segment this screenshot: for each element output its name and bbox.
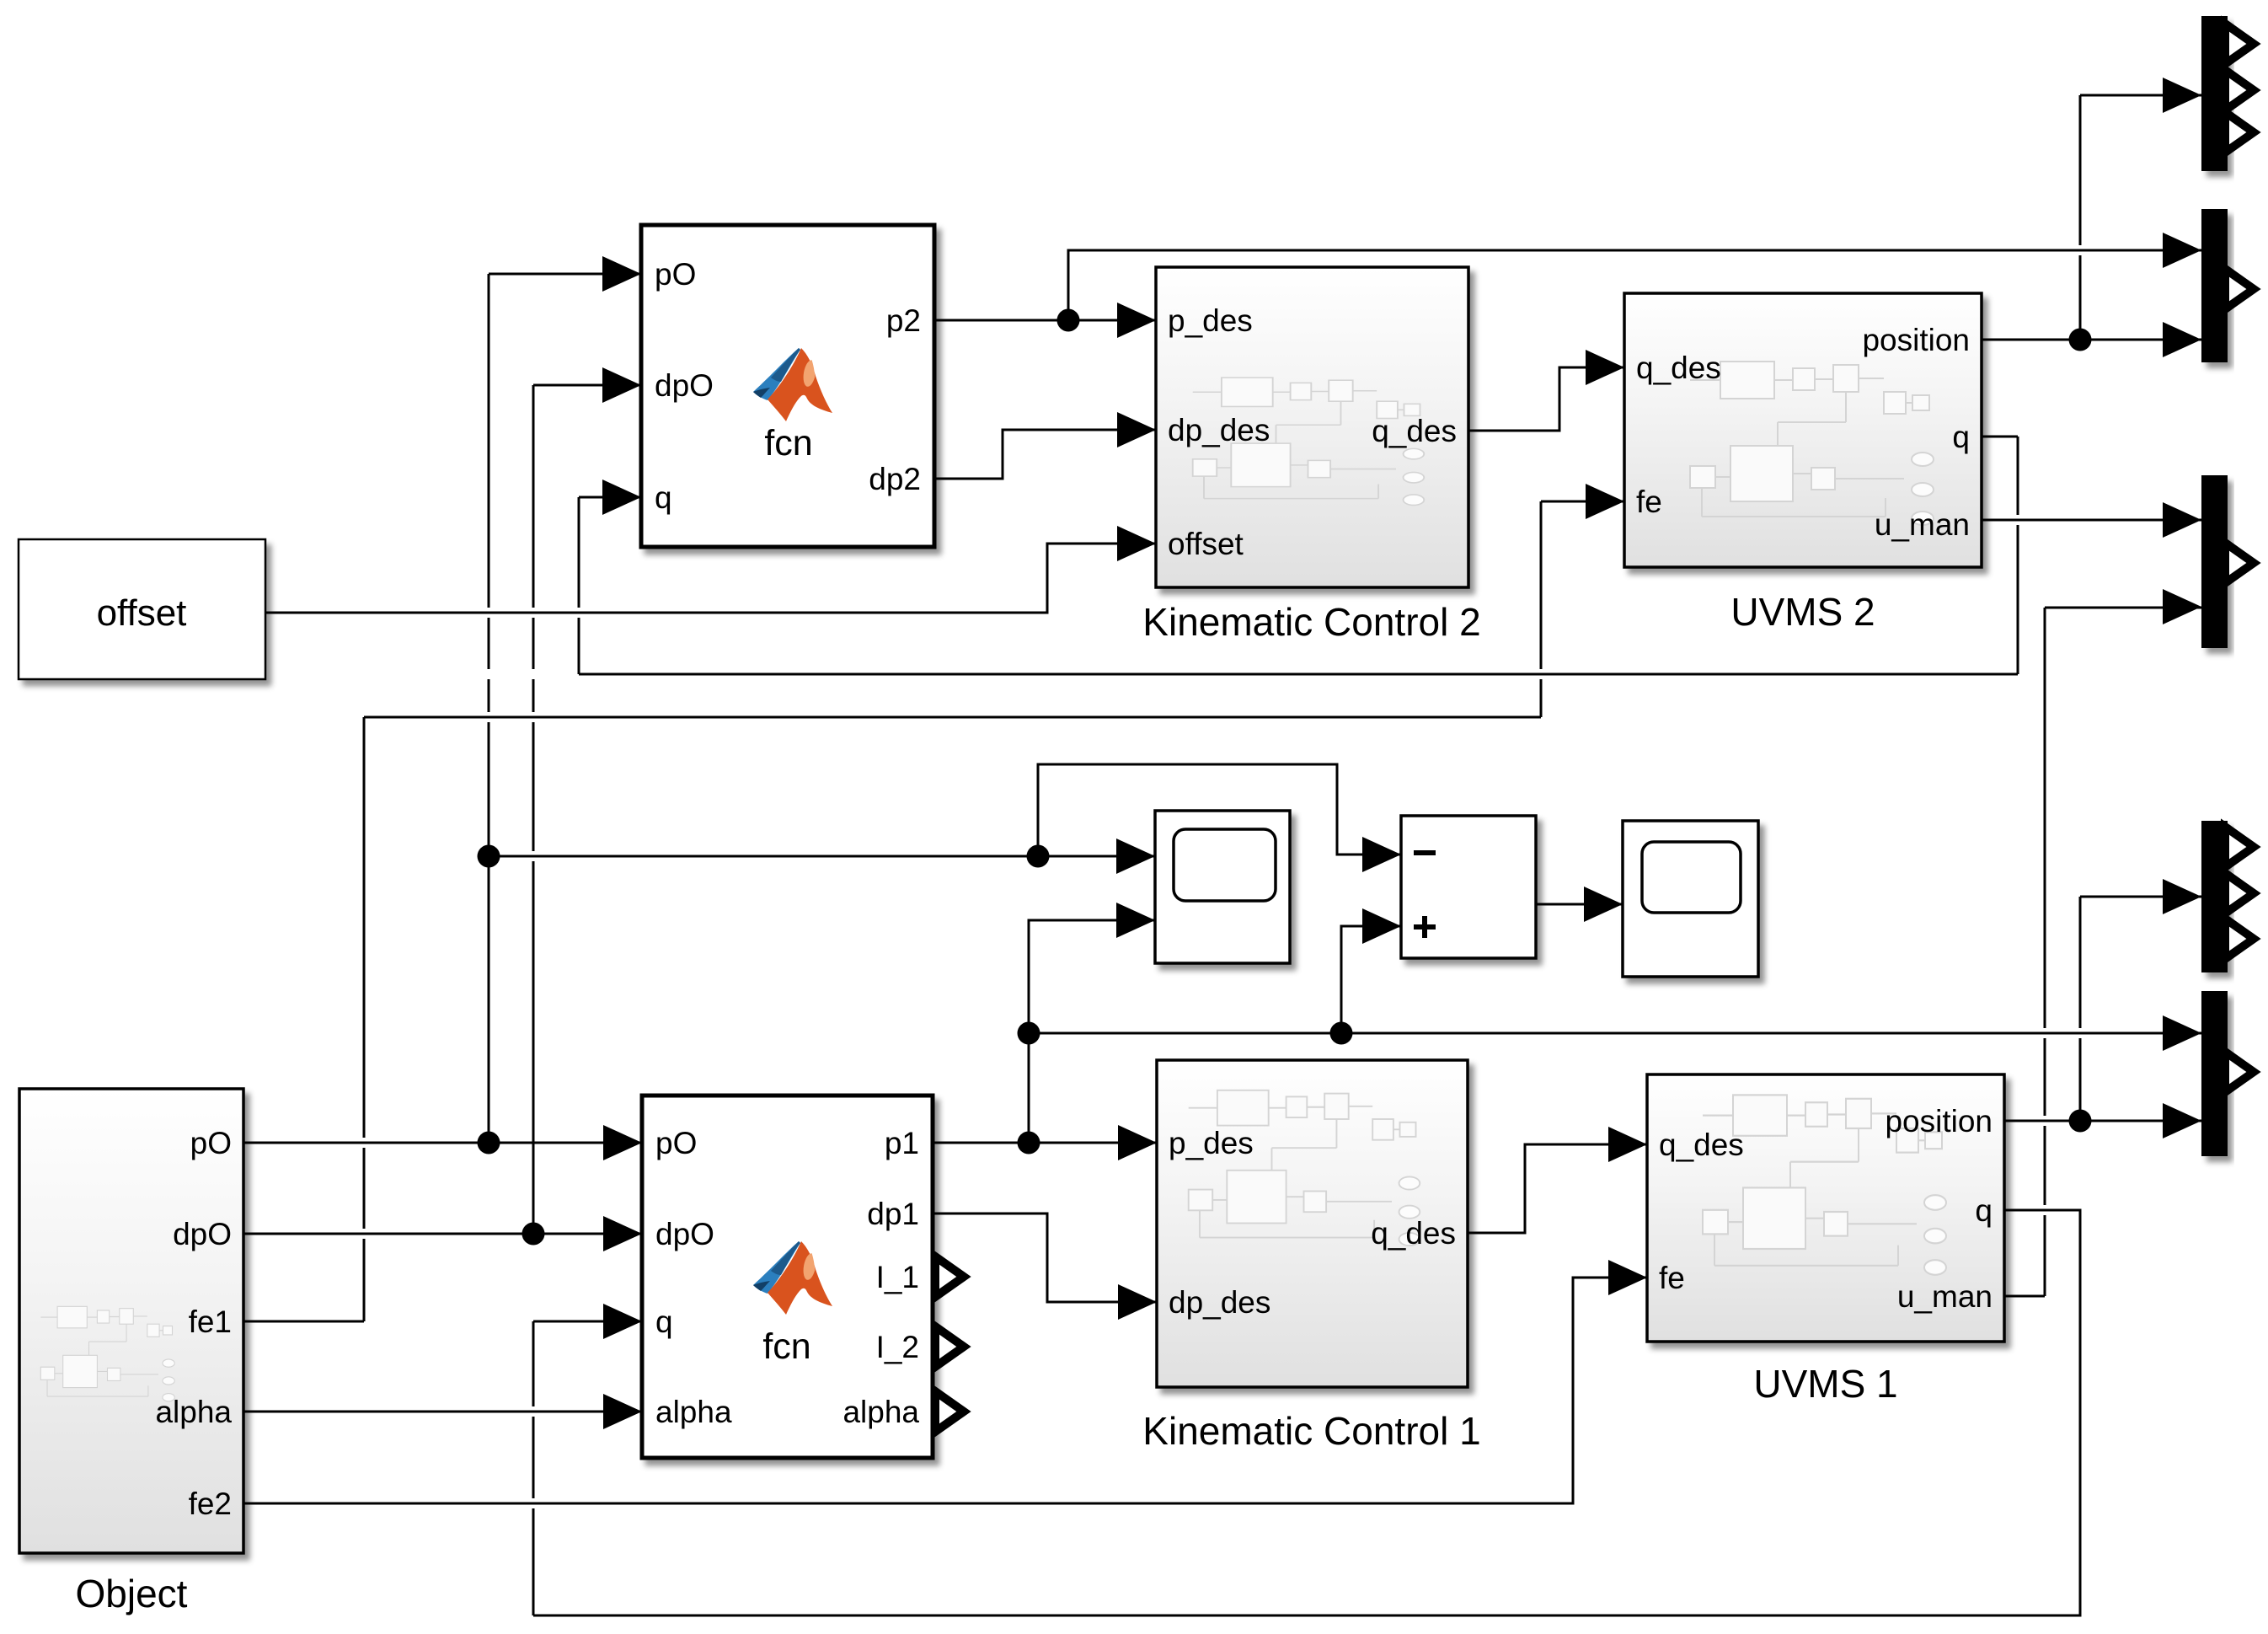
port arrow UVMS2.q_des	[1586, 350, 1624, 385]
port arrow Sum plus input	[1362, 908, 1401, 944]
port arrow fcn2.pO	[602, 256, 641, 292]
svg-text:q_des: q_des	[1372, 414, 1457, 448]
caption Object	[76, 1572, 188, 1615]
port arrow KC2.offset	[1117, 526, 1156, 561]
svg-text:UVMS 2: UVMS 2	[1730, 590, 1875, 634]
subsystem UVMS 2	[1624, 293, 1982, 567]
wire UVMS2.u_man to mux bar3 input 1	[1982, 519, 2201, 522]
inner diagram art of Kinematic Control 2	[1193, 378, 1425, 505]
svg-text:q_des: q_des	[1371, 1216, 1456, 1251]
MATLAB Function block fcn1	[642, 1096, 933, 1458]
unconnected output chevron bar2 out	[2225, 269, 2254, 309]
port arrow fcn1.pO	[603, 1125, 642, 1160]
constant block offset	[19, 539, 265, 679]
unconnected output chevron fcn1.I_2	[935, 1326, 964, 1367]
svg-text:fe1: fe1	[189, 1305, 232, 1339]
port arrow Sum minus input	[1362, 837, 1401, 872]
svg-text:q: q	[1975, 1193, 1993, 1228]
wire Object.alpha to fcn1.alpha	[243, 1411, 642, 1413]
label of offset block	[97, 592, 187, 634]
unconnected output chevron bar4 out 2	[2225, 873, 2254, 913]
port arrow bar3 input 1	[2163, 502, 2201, 538]
unconnected output chevron bar5 out	[2225, 1052, 2254, 1092]
wire fcn1.p1 to KC1.p_des	[933, 1142, 1157, 1144]
unconnected output chevron fcn1.alpha out	[935, 1391, 964, 1432]
wire Object.fe2 to UVMS1.fe	[243, 1278, 1647, 1503]
svg-text:u_man: u_man	[1897, 1279, 1993, 1314]
svg-text:Object: Object	[76, 1572, 188, 1615]
unconnected output chevron bar1 out 3	[2225, 112, 2254, 153]
svg-text:pO: pO	[655, 1126, 697, 1160]
svg-text:fe: fe	[1659, 1261, 1685, 1295]
svg-text:dpO: dpO	[655, 1217, 714, 1251]
svg-text:dp2: dp2	[869, 462, 921, 496]
port arrow bar5 input 2	[2163, 1103, 2201, 1138]
svg-text:position: position	[1862, 323, 1970, 357]
unconnected output chevron fcn1.I_1	[935, 1256, 964, 1297]
wire dpO branch vertical to fcn2.dpO	[533, 385, 641, 1234]
subsystem Object	[19, 1089, 243, 1553]
wire UVMS1.u_man to mux bar3 input 2	[2004, 608, 2201, 1296]
svg-text:alpha: alpha	[155, 1395, 232, 1429]
svg-text:offset: offset	[97, 592, 187, 634]
wire p1 long line to mux bar5 input 1	[1029, 1032, 2201, 1035]
subsystem Kinematic Control 2	[1156, 267, 1468, 587]
port labels of fcn2	[655, 257, 921, 515]
fcn text of fcn2	[764, 423, 812, 463]
wire Object.dpO to fcn1.dpO	[243, 1233, 642, 1235]
demux bar 4	[2201, 821, 2228, 972]
port arrow fcn2.dpO	[602, 367, 641, 403]
demux bar 1 (top right)	[2201, 16, 2228, 171]
wire position2 branch to demux bar1 input	[2080, 95, 2201, 340]
wire offset to KC2.offset	[265, 544, 1156, 613]
subsystem Kinematic Control 1	[1157, 1060, 1468, 1387]
wire UVMS2.q feedback to fcn2.q	[579, 437, 2018, 674]
wire fcn2.p2 to KC2.p_des	[934, 319, 1156, 322]
svg-text:fe2: fe2	[189, 1487, 232, 1521]
port arrow bar1 input	[2163, 78, 2201, 113]
port labels of Kinematic Control 2	[1168, 303, 1457, 561]
junction pO sum branch	[1027, 845, 1050, 868]
port labels of UVMS 2	[1636, 323, 1970, 542]
svg-text:q: q	[1952, 420, 1970, 454]
junction p2 branch	[1057, 309, 1080, 332]
svg-text:pO: pO	[655, 257, 696, 292]
unconnected output chevron bar4 out 3	[2225, 919, 2254, 959]
mux bar 5	[2201, 991, 2228, 1156]
svg-text:q_des: q_des	[1636, 351, 1721, 385]
svg-text:position: position	[1885, 1104, 1993, 1138]
svg-text:dpO: dpO	[173, 1217, 232, 1251]
svg-text:p1: p1	[885, 1126, 919, 1160]
junction p1 sum plus branch	[1330, 1022, 1353, 1045]
svg-text:offset: offset	[1168, 527, 1244, 561]
wire p2 branch to mux bar2 input 1	[1068, 250, 2201, 320]
svg-text:I_2: I_2	[876, 1330, 919, 1364]
junction p1 branch	[1018, 1132, 1040, 1155]
inner diagram art of UVMS 1	[1703, 1095, 1946, 1274]
port arrow bar4 input	[2163, 879, 2201, 914]
sum block (minus plus)	[1401, 816, 1536, 958]
port arrow Scope1 input 1	[1116, 838, 1155, 874]
port arrow fcn1.q	[603, 1304, 642, 1339]
svg-text:dp_des: dp_des	[1168, 413, 1270, 447]
svg-text:dpO: dpO	[655, 368, 714, 403]
subsystem UVMS 1	[1647, 1074, 2004, 1342]
port arrow bar2 input 1	[2163, 233, 2201, 268]
svg-text:u_man: u_man	[1875, 507, 1970, 542]
svg-text:alpha: alpha	[655, 1395, 732, 1429]
wire p1 branch to Scope1 input 2	[1029, 920, 1155, 1143]
port arrow KC1.dp_des	[1118, 1284, 1157, 1320]
wire KC1.q_des to UVMS1.q_des	[1468, 1144, 1647, 1233]
wire pO branch vertical x580	[488, 274, 490, 1143]
port arrow fcn1.dpO	[603, 1216, 642, 1251]
svg-text:fe: fe	[1636, 485, 1662, 519]
caption UVMS 1	[1753, 1362, 1897, 1406]
junction pO scope branch	[478, 845, 500, 868]
svg-text:UVMS 1: UVMS 1	[1753, 1362, 1897, 1406]
junction pO branch	[478, 1132, 500, 1155]
wire Object.fe1 to UVMS2.fe	[243, 501, 1624, 1321]
scope block Scope2	[1623, 821, 1758, 977]
svg-text:dp_des: dp_des	[1169, 1285, 1270, 1320]
port arrow KC2.p_des	[1117, 303, 1156, 338]
port arrow KC1.p_des	[1118, 1125, 1157, 1160]
junction position2 branch	[2069, 329, 2092, 351]
port arrow UVMS1.fe	[1608, 1260, 1647, 1295]
svg-text:q: q	[655, 480, 672, 515]
svg-text:p_des: p_des	[1168, 303, 1253, 338]
svg-text:p_des: p_des	[1169, 1126, 1254, 1160]
svg-text:fcn: fcn	[764, 423, 812, 463]
wire UVMS2.position to mux bar2 input 2	[1982, 339, 2201, 341]
caption Kinematic Control 1	[1142, 1409, 1480, 1453]
junction position1 branch	[2069, 1110, 2092, 1133]
port labels of UVMS 1	[1659, 1104, 1993, 1314]
port arrow Scope2 input	[1584, 887, 1623, 922]
junction dpO branch	[522, 1223, 545, 1246]
inner diagram art of Object	[40, 1306, 174, 1401]
wire p1 branch to Sum plus input	[1341, 926, 1401, 1033]
svg-text:pO: pO	[190, 1126, 232, 1160]
port arrow UVMS1.q_des	[1608, 1127, 1647, 1162]
wire pO to fcn2.pO	[489, 273, 641, 276]
svg-text:Kinematic Control 2: Kinematic Control 2	[1142, 600, 1480, 644]
port arrow Scope1 input 2	[1116, 903, 1155, 938]
svg-text:I_1: I_1	[876, 1260, 919, 1294]
svg-text:Kinematic Control 1: Kinematic Control 1	[1142, 1409, 1480, 1453]
port arrow bar3 input 2	[2163, 589, 2201, 624]
port arrow fcn1.alpha	[603, 1394, 642, 1429]
svg-text:p2: p2	[886, 303, 921, 338]
mux bar 3	[2201, 475, 2228, 648]
wire fcn2.dp2 to KC2.dp_des	[934, 430, 1156, 479]
port labels of fcn1	[655, 1126, 919, 1429]
wire pO to Scope1 input 1	[489, 855, 1155, 858]
port labels of Object	[155, 1126, 232, 1521]
MATLAB logo of fcn2	[753, 348, 832, 421]
caption Kinematic Control 2	[1142, 600, 1480, 644]
svg-text:alpha: alpha	[842, 1395, 919, 1429]
unconnected output chevron bar1 out 1	[2225, 24, 2254, 64]
unconnected output chevron bar4 out 1	[2225, 827, 2254, 867]
MATLAB Function block fcn2	[641, 225, 934, 547]
svg-text:q_des: q_des	[1659, 1128, 1744, 1162]
svg-text:dp1: dp1	[867, 1197, 919, 1231]
fcn text of fcn1	[762, 1326, 810, 1367]
wire fcn1.dp1 to KC1.dp_des	[933, 1213, 1157, 1302]
svg-text:fcn: fcn	[762, 1326, 810, 1367]
port arrow UVMS2.fe	[1586, 484, 1624, 519]
junction p1 long line branch	[1018, 1022, 1040, 1045]
inner diagram art of UVMS 2	[1690, 362, 1934, 525]
port arrow fcn2.q	[602, 479, 641, 515]
wire UVMS1.position to mux bar5 input 2	[2004, 1120, 2201, 1122]
scope block Scope1	[1155, 811, 1290, 963]
wire position1 branch to demux bar4 input	[2080, 897, 2201, 1121]
port arrow KC2.dp_des	[1117, 412, 1156, 447]
mux bar 2	[2201, 209, 2228, 362]
wire Object.pO to fcn1.pO	[243, 1142, 642, 1144]
caption UVMS 2	[1730, 590, 1875, 634]
port arrow bar2 input 2	[2163, 322, 2201, 357]
inner diagram art of Kinematic Control 1	[1189, 1090, 1420, 1246]
wire UVMS1.q feedback to fcn1.q	[533, 1210, 2080, 1615]
unconnected output chevron bar1 out 2	[2225, 70, 2254, 110]
wire Sum output to Scope2	[1536, 903, 1623, 906]
port labels of Kinematic Control 1	[1169, 1126, 1456, 1320]
MATLAB logo of fcn1	[753, 1241, 832, 1315]
svg-text:q: q	[655, 1305, 673, 1339]
unconnected output chevron bar3 out	[2225, 543, 2254, 583]
wire pO to Sum minus input	[1038, 764, 1401, 856]
port arrow bar5 input 1	[2163, 1015, 2201, 1051]
wire KC2.q_des to UVMS2.q_des	[1468, 367, 1624, 431]
